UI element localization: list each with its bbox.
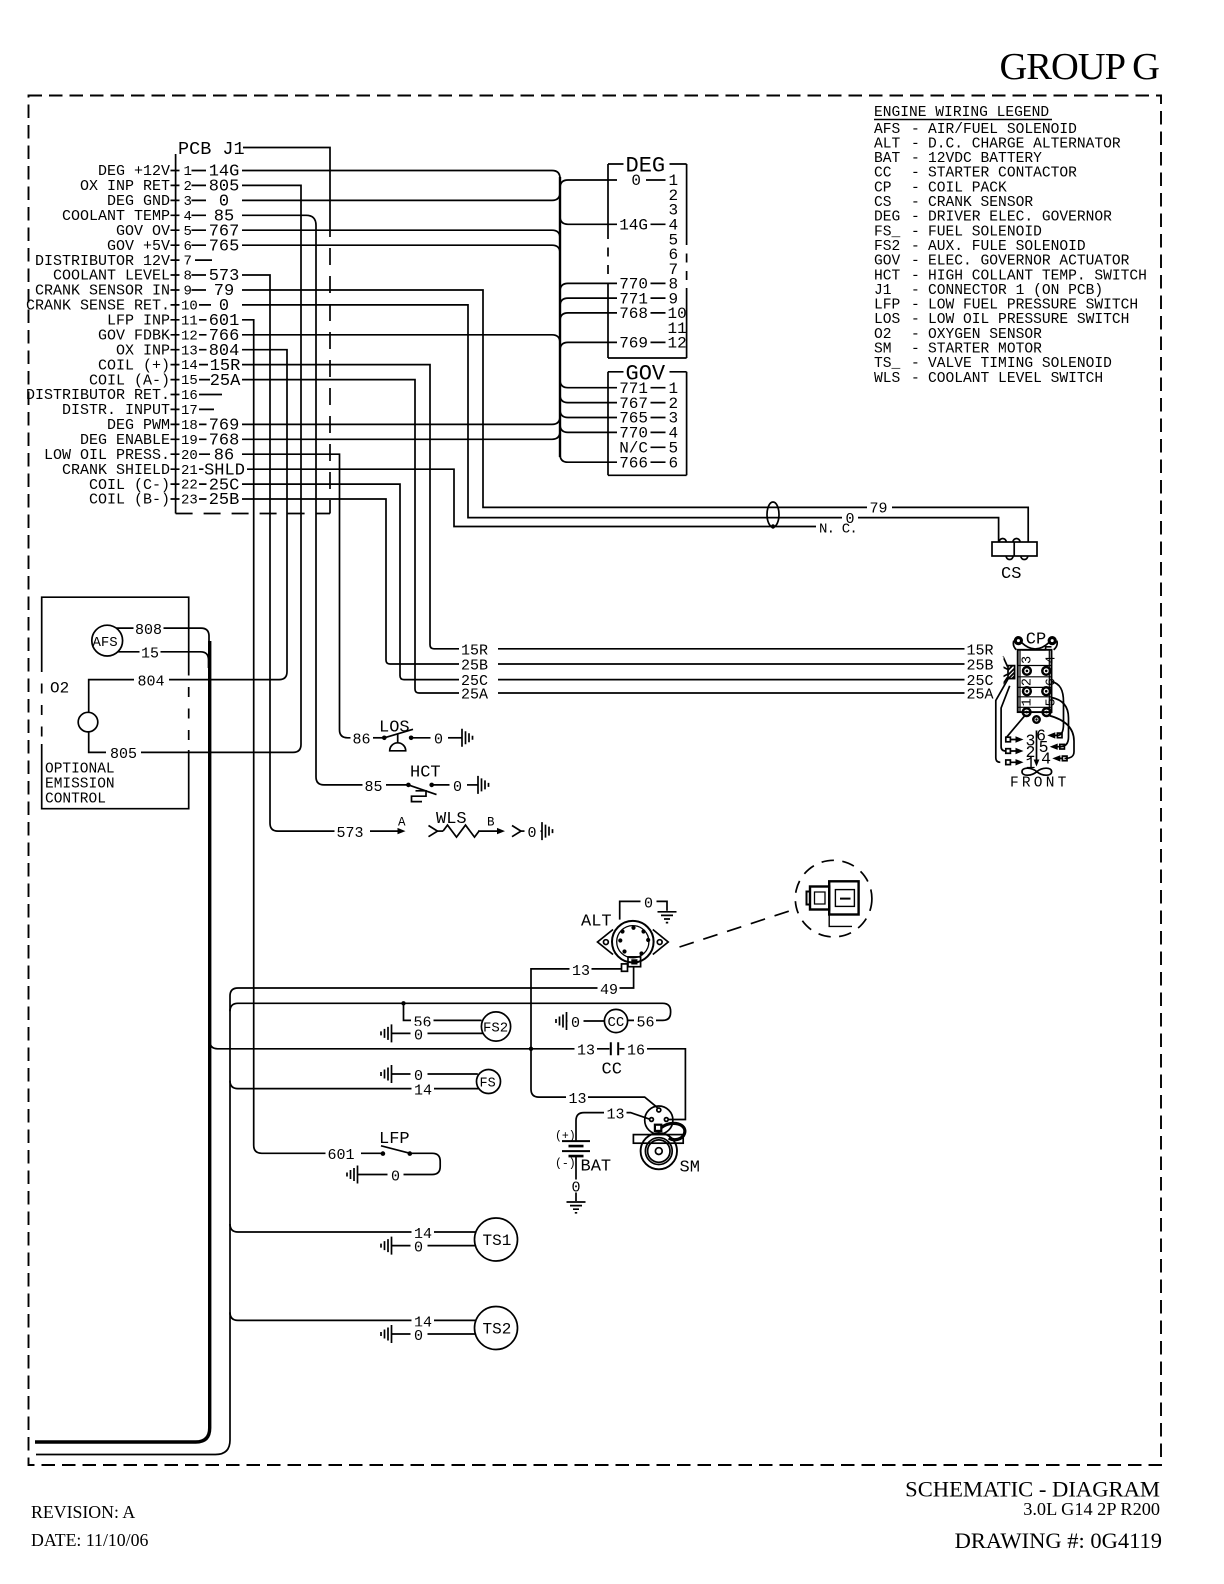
svg-text:PCB J1: PCB J1: [178, 139, 245, 160]
svg-text:STARTER MOTOR: STARTER MOTOR: [928, 342, 1042, 358]
svg-text:6: 6: [184, 239, 192, 255]
wire 0: ground to TS1: [381, 1237, 392, 1255]
plug pigtail line: [829, 915, 852, 927]
switch LOS low oil pressure: [351, 719, 473, 751]
svg-text:56: 56: [637, 1015, 655, 1032]
CP mounting ears: [1014, 636, 1023, 645]
svg-text:AIR/FUEL SOLENOID: AIR/FUEL SOLENOID: [928, 122, 1077, 138]
svg-text:1: 1: [1021, 698, 1036, 706]
solenoid AFS: [92, 625, 123, 656]
label 805: [106, 745, 141, 761]
CP pin sockets: [1023, 667, 1051, 723]
svg-text:-: -: [911, 239, 920, 255]
J1 pin-to-label dashes: [192, 171, 223, 500]
svg-text:12: 12: [668, 335, 687, 353]
optional emission control box: [42, 597, 189, 809]
ALT terminals: [620, 929, 624, 933]
connector CP coil pack: [996, 631, 1074, 792]
wire 0: ground to TS2: [381, 1325, 392, 1343]
LFP blade: [381, 1146, 411, 1154]
J1 row labels: [26, 163, 170, 509]
SM mounting bracket: [633, 1135, 683, 1144]
solenoid FS2: [481, 1012, 510, 1041]
svg-text:-: -: [911, 371, 920, 387]
svg-text:4: 4: [1041, 750, 1051, 769]
svg-text:-: -: [911, 312, 920, 328]
svg-text:OXYGEN SENSOR: OXYGEN SENSOR: [928, 327, 1042, 343]
svg-text:19: 19: [181, 433, 198, 449]
svg-text:0: 0: [572, 1179, 581, 1196]
svg-text:WLS: WLS: [874, 371, 901, 387]
sensor O2 circle: [78, 712, 98, 732]
leader line to connector detail: [680, 909, 798, 948]
svg-text:-: -: [911, 342, 920, 358]
svg-text:HIGH COLLANT TEMP. SWITCH: HIGH COLLANT TEMP. SWITCH: [928, 268, 1147, 284]
svg-text:0: 0: [414, 1027, 423, 1044]
harness second cable to border: [36, 988, 238, 1455]
svg-text:765: 765: [209, 237, 240, 256]
svg-text:86: 86: [353, 732, 371, 749]
svg-text:O2: O2: [50, 680, 69, 698]
svg-text:FRONT: FRONT: [1010, 776, 1070, 792]
CC contact bars: [611, 1042, 618, 1055]
svg-text:12: 12: [181, 328, 198, 344]
connector GOV box: [608, 372, 687, 476]
svg-text:FS2: FS2: [874, 239, 900, 255]
svg-text:-: -: [911, 166, 920, 182]
svg-text:0: 0: [391, 1169, 400, 1186]
SM cable hook: [662, 1123, 685, 1139]
svg-text:23: 23: [181, 493, 198, 509]
svg-text:CP: CP: [1026, 631, 1046, 650]
svg-text:14: 14: [414, 1083, 432, 1100]
svg-text:13: 13: [577, 1043, 595, 1060]
CP inlet hatch block: [1008, 666, 1015, 679]
svg-text:3.0L G14 2P R200: 3.0L G14 2P R200: [1023, 1499, 1160, 1519]
switch HCT high coolant temp: [363, 764, 489, 802]
wire 0: ground to FS2: [381, 1024, 392, 1042]
wire 0: J1-3 to DEG-1: [242, 180, 617, 200]
wire 85: J1-4 to HCT: [242, 215, 363, 785]
svg-text:13: 13: [572, 963, 590, 980]
wire 25B: J1-23 to CP: [242, 499, 1008, 669]
detail bubble circle: [795, 860, 872, 937]
svg-text:3: 3: [1021, 656, 1036, 664]
wire 25A: J1-15 to CP: [242, 380, 1008, 693]
DEG pin numbers: [668, 172, 687, 352]
wire 14: harness to TS1: [230, 1224, 476, 1232]
svg-text:B: B: [487, 816, 495, 830]
LFP loop to ground: [403, 1153, 440, 1174]
solenoid TS2: [475, 1307, 518, 1350]
svg-text:DATE: 11/10/06: DATE: 11/10/06: [31, 1530, 148, 1550]
svg-text:0: 0: [571, 1015, 580, 1032]
svg-text:8: 8: [184, 269, 192, 285]
svg-text:CONTROL: CONTROL: [45, 792, 106, 808]
WLS sensor element: [443, 825, 479, 837]
wire 13: ALT to CC and SM: [531, 969, 658, 1108]
svg-text:14G: 14G: [619, 217, 648, 235]
svg-text:-: -: [911, 210, 920, 226]
wire 79: J1-9 to CS: [242, 290, 1028, 542]
svg-text:25A: 25A: [967, 687, 994, 704]
svg-text:-: -: [911, 268, 920, 284]
svg-text:20: 20: [181, 448, 198, 464]
svg-text:GOV: GOV: [874, 254, 901, 270]
wire 0: ALT to ground: [620, 901, 641, 919]
svg-text:(-): (-): [555, 1158, 576, 1171]
CP front propeller mark: [1022, 768, 1052, 775]
svg-text:18: 18: [181, 418, 198, 434]
svg-text:-: -: [911, 224, 920, 240]
WLS plug chevron B: [512, 826, 521, 837]
svg-text:CS: CS: [1001, 565, 1021, 584]
svg-text:AFS: AFS: [874, 122, 901, 138]
svg-text:FS: FS: [480, 1076, 496, 1091]
ALT right ear: [653, 930, 668, 955]
wire 86: J1-20 to LOS: [242, 454, 351, 738]
svg-text:N. C.: N. C.: [819, 522, 857, 538]
wire 766: J1-12 to GOV-6: [242, 335, 617, 462]
ALT bottom connector tab: [628, 957, 641, 967]
svg-text:25B: 25B: [967, 658, 994, 675]
svg-text:25B: 25B: [461, 658, 488, 675]
svg-text:13: 13: [607, 1107, 625, 1124]
svg-text:10: 10: [181, 299, 198, 315]
svg-text:FUEL SOLENOID: FUEL SOLENOID: [928, 224, 1042, 240]
label 808: [134, 621, 164, 637]
svg-text:808: 808: [135, 622, 162, 639]
junction on shield wire: [771, 524, 775, 528]
CP spark terminal blocks: [1006, 737, 1011, 742]
svg-text:STARTER CONTACTOR: STARTER CONTACTOR: [928, 166, 1077, 182]
switch LFP low fuel pressure: [326, 1130, 441, 1186]
connector DEG box: [608, 164, 687, 358]
svg-text:0: 0: [414, 1328, 423, 1345]
LOS diaphragm: [390, 734, 406, 751]
ALT 13 terminal: [622, 964, 628, 971]
svg-text:AUX. FULE SOLENOID: AUX. FULE SOLENOID: [928, 239, 1086, 255]
svg-text:805: 805: [110, 746, 137, 763]
svg-text:12VDC BATTERY: 12VDC BATTERY: [928, 151, 1042, 167]
svg-text:0: 0: [631, 172, 641, 190]
svg-text:A: A: [398, 816, 406, 830]
svg-text:1: 1: [184, 164, 192, 180]
wire 0: J1-10 to CS: [242, 305, 999, 542]
ALT plug detail: [829, 881, 858, 914]
svg-text:ALT: ALT: [581, 912, 612, 931]
svg-text:15: 15: [141, 646, 159, 663]
J1 pin numbers: [181, 164, 198, 509]
wire 770: DEG-8 to GOV-4: [560, 283, 617, 432]
J1 wire number labels: [204, 163, 245, 511]
CP body: [1018, 650, 1052, 712]
svg-text:TS1: TS1: [483, 1232, 512, 1250]
svg-text:DRAWING #: 0G4119: DRAWING #: 0G4119: [955, 1528, 1162, 1553]
LOS blade: [384, 729, 413, 738]
svg-text:CRANK SENSOR: CRANK SENSOR: [928, 195, 1033, 211]
wire 14: harness to TS2: [230, 1312, 476, 1320]
svg-text:0: 0: [644, 895, 653, 912]
wire 49: ALT to harness: [238, 967, 634, 988]
svg-text:TS_: TS_: [874, 356, 901, 372]
svg-text:804: 804: [138, 673, 165, 690]
svg-text:-: -: [911, 327, 920, 343]
HCT thermal element: [412, 791, 427, 802]
shield loop ellipse: [767, 502, 779, 527]
SM solenoid: [645, 1106, 673, 1134]
CP pin numbers rotated: [1021, 656, 1060, 707]
svg-text:-: -: [911, 254, 920, 270]
wire 14G: J1-1 to DEG-4: [242, 171, 617, 225]
GOV wire labels: [619, 380, 648, 473]
connector CS crank sensor: [992, 542, 1037, 556]
wire SHLD: J1-21 to N.C.: [247, 469, 816, 526]
svg-text:TS2: TS2: [483, 1321, 512, 1339]
svg-text:LFP: LFP: [874, 298, 900, 314]
labels 15R 25B 25C 25A right: [965, 641, 1004, 656]
svg-text:766: 766: [619, 454, 648, 472]
svg-text:16: 16: [627, 1043, 645, 1060]
svg-text:13: 13: [569, 1091, 587, 1108]
PCB dashed boundary (right side of J1 region): [176, 220, 330, 514]
CP harness loops right: [1052, 682, 1064, 736]
svg-text:LOW FUEL PRESSURE SWITCH: LOW FUEL PRESSURE SWITCH: [928, 298, 1138, 314]
GOV pin numbers: [669, 380, 679, 473]
svg-text:25A: 25A: [210, 372, 241, 391]
wire 808: AFS to harness: [116, 628, 209, 644]
GOV label-pin dashes: [651, 388, 666, 463]
ALT left ear: [598, 930, 614, 955]
svg-text:13: 13: [181, 343, 198, 359]
label OPTIONAL EMISSION CONTROL: [45, 762, 115, 808]
svg-text:CONNECTOR 1 (ON PCB): CONNECTOR 1 (ON PCB): [928, 283, 1103, 299]
wire 573: J1-8 to WLS: [242, 275, 335, 831]
svg-text:FS2: FS2: [483, 1021, 508, 1037]
J1 pin ticks through header bar: [171, 171, 180, 500]
svg-text:-: -: [911, 356, 920, 372]
svg-text:11: 11: [181, 313, 198, 329]
legend title underline: [874, 119, 1052, 121]
wire 14: harness to FS: [230, 1081, 479, 1089]
ALT body: [612, 921, 654, 963]
svg-text:J1: J1: [874, 283, 892, 299]
svg-text:SM: SM: [874, 342, 892, 358]
svg-text:SCHEMATIC - DIAGRAM: SCHEMATIC - DIAGRAM: [905, 1477, 1160, 1502]
wire 767: J1-5 to GOV-2: [242, 230, 617, 402]
svg-text:3: 3: [184, 194, 192, 210]
svg-text:VALVE TIMING SOLENOID: VALVE TIMING SOLENOID: [928, 356, 1112, 372]
wire 769: J1-18 to DEG-12: [242, 342, 617, 424]
wire 0: ground to FS: [381, 1065, 392, 1083]
svg-text:-: -: [911, 151, 920, 167]
svg-text:15: 15: [181, 373, 198, 389]
connector J1 on PCB: header bar: [175, 154, 177, 514]
svg-text:BAT: BAT: [874, 151, 901, 167]
svg-text:9: 9: [184, 284, 192, 300]
starter motor SM: [633, 1106, 700, 1177]
svg-text:768: 768: [619, 305, 648, 323]
svg-text:O2: O2: [874, 327, 892, 343]
contactor CC coil circle: [604, 1009, 627, 1032]
wire 13-16: harness to CC contacts to SM: [210, 1041, 686, 1120]
svg-text:ALT: ALT: [874, 136, 901, 152]
svg-text:OPTIONAL: OPTIONAL: [45, 762, 115, 778]
DEG label-pin dashes: [646, 180, 666, 342]
svg-text:0: 0: [414, 1240, 423, 1257]
alternator ALT: [581, 860, 872, 971]
svg-text:6: 6: [669, 454, 679, 472]
svg-text:79: 79: [870, 501, 888, 518]
svg-text:D.C. CHARGE ALTERNATOR: D.C. CHARGE ALTERNATOR: [928, 136, 1121, 152]
svg-text:85: 85: [365, 779, 383, 796]
wire 765: J1-6 to GOV-3: [242, 245, 617, 417]
svg-text:16: 16: [181, 388, 198, 404]
CP spark arrows left 3 2 1: [1010, 740, 1015, 763]
DEG wire labels: [619, 172, 648, 352]
wire 805: J1-2 to O2 sensor: [89, 185, 301, 752]
wire 13: BAT to SM: [576, 1113, 650, 1142]
battery BAT: [555, 1130, 611, 1213]
svg-text:CC: CC: [602, 1061, 622, 1080]
harness thick cable to border: [35, 641, 210, 1442]
CP firing order arrow: [1036, 731, 1038, 760]
svg-text:ENGINE WIRING LEGEND: ENGINE WIRING LEGEND: [874, 105, 1049, 121]
solenoid FS: [477, 1070, 501, 1094]
svg-text:0: 0: [453, 779, 462, 796]
CP harness loops left: [1007, 715, 1026, 738]
legend ENGINE WIRING LEGEND: [874, 105, 1147, 387]
svg-text:FS_: FS_: [874, 224, 901, 240]
svg-text:DRIVER ELEC. GOVERNOR: DRIVER ELEC. GOVERNOR: [928, 210, 1112, 226]
label 56 right: [634, 1013, 656, 1029]
svg-text:-: -: [911, 180, 920, 196]
svg-text:7: 7: [184, 254, 192, 270]
svg-text:REVISION: A: REVISION: A: [31, 1502, 135, 1522]
label 15: [140, 644, 161, 660]
label 79: [867, 499, 892, 515]
solenoid TS1: [475, 1218, 518, 1261]
svg-text:-: -: [911, 298, 920, 314]
svg-text:14: 14: [181, 358, 198, 374]
CP saddle: [1022, 643, 1050, 650]
svg-text:573: 573: [337, 825, 364, 842]
SM motor body: [641, 1133, 677, 1169]
svg-text:CS: CS: [874, 195, 892, 211]
svg-text:COIL PACK: COIL PACK: [928, 180, 1007, 196]
junction 56 branch: [401, 1001, 405, 1005]
wire from J1 label to PCB dashed boundary: [243, 148, 330, 221]
svg-text:COIL (B-): COIL (B-): [89, 492, 170, 509]
wire 0: ground to CC: [556, 1012, 567, 1030]
svg-text:BAT: BAT: [581, 1158, 612, 1177]
wire 15: AFS to harness: [118, 652, 209, 668]
svg-text:GROUP G: GROUP G: [999, 46, 1159, 88]
svg-text:49: 49: [600, 982, 618, 999]
CP spark arrows right 6 5 4: [1052, 735, 1062, 758]
wire bundle trunk: [559, 177, 561, 457]
svg-text:5: 5: [184, 224, 192, 240]
label 0: [842, 509, 858, 525]
junction 13 at CC: [529, 1047, 533, 1051]
svg-text:17: 17: [181, 403, 198, 419]
wire 56: harness to FS2 and CC: [230, 1003, 671, 1020]
svg-text:-: -: [911, 195, 920, 211]
svg-text:HCT: HCT: [874, 268, 901, 284]
svg-text:-: -: [911, 136, 920, 152]
svg-text:-: -: [911, 283, 920, 299]
wire 25C: J1-22 to CP: [242, 484, 1008, 679]
WLS plug chevron A: [429, 826, 438, 837]
svg-text:COOLANT LEVEL SWITCH: COOLANT LEVEL SWITCH: [928, 371, 1103, 387]
svg-text:CP: CP: [874, 180, 892, 196]
svg-text:AFS: AFS: [93, 635, 118, 651]
svg-text:DEG: DEG: [874, 210, 900, 226]
wire 804: J1-13 to O2 sensor: [89, 350, 287, 713]
svg-text:21: 21: [181, 463, 198, 479]
svg-text:HCT: HCT: [410, 764, 441, 783]
ground earth at ALT: [658, 912, 677, 923]
svg-text:WLS: WLS: [436, 810, 467, 829]
wire 15R: J1-14 to CP: [242, 365, 1008, 667]
labels 15R 25B 25C 25A left: [459, 641, 498, 656]
svg-text:4: 4: [1044, 656, 1059, 664]
svg-text:CC: CC: [608, 1015, 625, 1031]
svg-text:769: 769: [619, 335, 648, 353]
svg-text:25A: 25A: [461, 687, 488, 704]
HCT blade: [408, 785, 436, 795]
svg-text:2: 2: [1021, 678, 1036, 686]
wire 771: DEG-9 to GOV-1: [560, 298, 617, 388]
svg-text:(+): (+): [555, 1130, 576, 1143]
wire 768: J1-19 to DEG-10: [242, 313, 617, 439]
label 804: [134, 672, 169, 688]
svg-text:LOS: LOS: [874, 312, 901, 328]
svg-text:CC: CC: [874, 166, 892, 182]
svg-text:601: 601: [328, 1147, 355, 1164]
svg-text:22: 22: [181, 478, 198, 494]
switch WLS coolant level: [335, 810, 553, 842]
wire 601: J1-11 to LFP: [242, 320, 326, 1154]
svg-text:SM: SM: [680, 1158, 700, 1177]
svg-text:25B: 25B: [209, 491, 240, 510]
svg-text:ELEC. GOVERNOR ACTUATOR: ELEC. GOVERNOR ACTUATOR: [928, 254, 1130, 270]
svg-text:LOW OIL PRESSURE SWITCH: LOW OIL PRESSURE SWITCH: [928, 312, 1129, 328]
svg-text:4: 4: [184, 209, 192, 225]
svg-text:2: 2: [184, 179, 192, 195]
svg-text:EMISSION: EMISSION: [45, 777, 115, 793]
wire 0: BAT to ground: [575, 1156, 577, 1201]
svg-text:-: -: [911, 122, 920, 138]
svg-text:0: 0: [434, 732, 443, 749]
svg-text:0: 0: [528, 825, 537, 842]
